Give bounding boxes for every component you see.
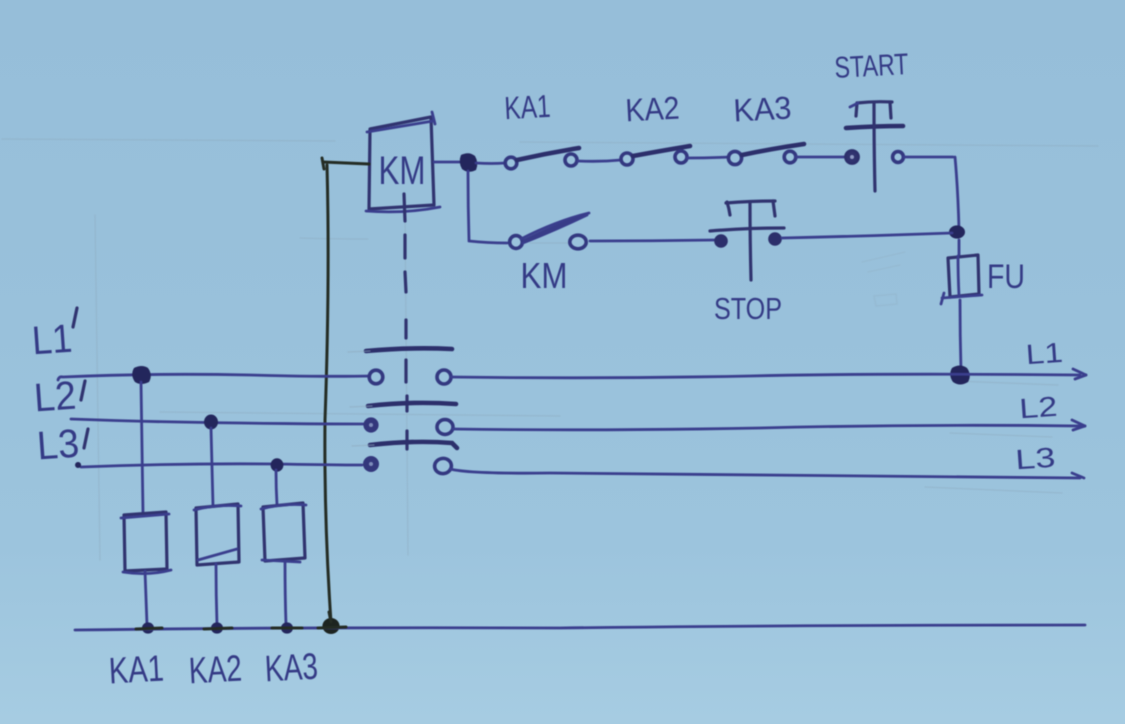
node: L2'/KA2 junction [204,415,218,430]
svg-text:KA2: KA2 [625,90,681,129]
wire: fuse to L1 [960,300,961,371]
node: KA1/bus junction [142,622,154,633]
svg-text:L1: L1 [31,317,74,364]
KM main contacts: mechanical link stub [404,194,405,221]
KM main contact pole 1 bridge [366,348,452,351]
KM main contact pole 3 terminals [363,456,452,475]
pushbutton STOP (NC) [710,201,784,280]
wire: KA3 coil branch upper [276,470,277,505]
wire: KA1 to KA2 [578,160,621,161]
svg-text:L1: L1 [1025,337,1064,371]
node: L1'/KA1 junction [132,366,151,384]
wire: KA3 coil branch lower [285,561,286,625]
wire: line L1 to the right with arrow [451,369,1086,379]
wire: line L3 to the right [450,469,1084,478]
wire: START to right corner [904,156,953,159]
svg-text:KA1: KA1 [504,88,552,126]
relay coil KA2 [194,504,241,565]
node: KA2/bus junction [211,622,223,633]
svg-text:KM: KM [379,149,426,193]
wire: junction B to fuse [958,240,961,256]
wire: KM aux to STOP [590,240,714,241]
wire: KA2 coil branch lower [216,564,217,625]
svg-text:L2: L2 [33,374,78,421]
KM main contacts: dashed link [405,235,407,449]
node: junction C on L1 [950,366,970,385]
wire: KA1 coil branch lower [145,571,147,625]
label L2' [33,374,85,421]
svg-text:KA2: KA2 [188,648,243,692]
wire: corner to KM aux contact [469,241,507,243]
svg-text:L3: L3 [36,422,81,469]
node: L3'/KA3 junction [271,458,284,472]
label L1' [31,308,77,363]
svg-text:L2: L2 [1018,391,1058,425]
contact KA1 (NO) [505,148,579,169]
node: dark line/bus junction [322,612,339,634]
fuse FU [941,255,982,304]
pushbutton START (NO) [845,102,903,191]
wire: junction A down to aux rung [468,171,469,240]
node: KA3/bus junction [281,622,293,633]
wire: line L2' [71,419,366,424]
contact KA3 (NO) [728,144,804,165]
wire: bottom bus [75,625,1085,630]
wire: KA2 coil branch upper [211,428,213,506]
contact KM auxiliary (NO, self-hold) [510,213,589,249]
relay coil KA1 [121,512,171,574]
label L3' [36,422,88,469]
wire: line L2 to the right with arrow [453,420,1085,430]
KM main contact pole 1 terminals [369,370,451,384]
contactor coil KM [366,112,440,212]
node: junction A top rung [460,153,478,172]
svg-text:STOP: STOP [714,291,782,326]
node: junction B (stop rung / fuse) [949,225,965,238]
svg-text:KA3: KA3 [264,646,319,690]
KM main contact pole 2 terminals [363,417,453,434]
svg-text:L3: L3 [1014,442,1056,476]
wire: line L1' [58,374,372,380]
svg-text:KM: KM [521,255,568,296]
wire: KM right lead [434,161,461,164]
wire: KA2 to KA3 [687,157,729,158]
wire: KM left lead (dark) [322,158,369,169]
relay coil KA3 [261,503,306,562]
wire: junction A to KA1 contact [476,162,505,165]
svg-text:KA3: KA3 [733,90,793,129]
svg-text:START: START [834,48,910,85]
wire: STOP to junction B [782,233,952,238]
wire: dark vertical from KM lead to bottom bus [325,165,331,622]
wire: right vertical corner down to junction B [955,157,959,230]
wire: KA3 to START [796,156,844,159]
svg-text:KA1: KA1 [108,648,165,692]
svg-text:FU: FU [987,258,1025,296]
wire: line L3' [81,464,362,467]
KM main contact pole 2 bridge [368,403,456,406]
KM main contact pole 3 bridge [370,442,457,448]
contact KA2 (NO) [621,146,690,165]
wire: KA1 coil branch upper [141,382,143,513]
